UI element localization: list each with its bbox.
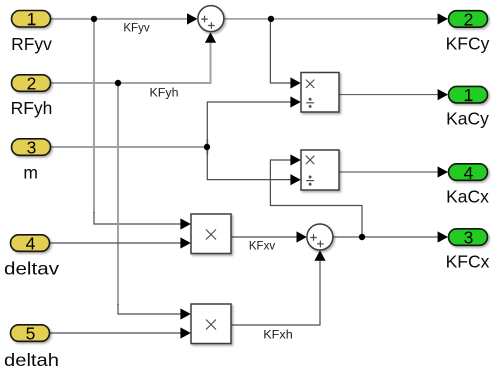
svg-text:4: 4 — [464, 163, 474, 183]
svg-text:KFCx: KFCx — [446, 252, 490, 272]
input port 5 — [11, 325, 50, 342]
product block P1 — [191, 214, 231, 254]
input port 4 — [11, 235, 50, 252]
wire branch sum1 output down to divide D1 — [270, 19, 298, 83]
arrowhead into out port KFCy — [438, 13, 448, 24]
junction on sum1 output — [268, 16, 274, 22]
wire product P1 output to sum2 — [231, 236, 298, 238]
arrowhead into sum2 bottom — [314, 250, 325, 261]
svg-text:KFxv: KFxv — [249, 241, 275, 253]
arrowhead into out port KaCy — [438, 89, 448, 100]
input port 1 — [12, 11, 51, 28]
arrowhead into divide D2 div input — [290, 174, 300, 185]
output port 4 KaCx — [449, 164, 488, 181]
output port 3 KFCx — [449, 229, 488, 246]
svg-text:5: 5 — [26, 324, 36, 344]
svg-text:RFyh: RFyh — [11, 98, 53, 118]
wire port2 RFyh to sum1 bottom — [51, 37, 211, 83]
arrowhead into divide D1 x input — [290, 77, 300, 88]
output port 1 KaCy — [449, 86, 488, 103]
svg-text:deltah: deltah — [4, 350, 59, 370]
svg-text:4: 4 — [26, 234, 36, 254]
sum block S2 — [307, 224, 333, 250]
junction on RFyh wire — [115, 80, 121, 86]
arrowhead into product P2 input1 — [180, 308, 190, 319]
svg-text:1: 1 — [464, 85, 474, 105]
sum block S1 — [198, 6, 224, 32]
junction on RFyv wire — [91, 16, 97, 22]
arrowhead into product P1 input1 — [180, 218, 190, 229]
wire m junction down to divide D2 — [207, 147, 298, 180]
svg-text:KFyv: KFyv — [123, 23, 149, 35]
svg-text:1: 1 — [27, 9, 37, 29]
svg-text:3: 3 — [27, 137, 37, 157]
svg-text:m: m — [23, 163, 38, 183]
svg-text:KaCx: KaCx — [446, 187, 489, 207]
wire port3 m to junction — [51, 146, 207, 148]
arrowhead into sum2 left — [297, 231, 307, 242]
wire port1 RFyv to sum1 — [51, 18, 189, 20]
svg-text:RFyv: RFyv — [11, 34, 52, 54]
input port 2 — [12, 75, 51, 92]
arrowhead into out port KFCx — [438, 231, 448, 242]
wire m junction up to divide D1 — [207, 102, 298, 147]
arrowhead into sum1 bottom — [205, 32, 216, 43]
arrowhead into divide D2 x input — [290, 154, 300, 165]
input port 3 — [12, 139, 51, 156]
wire branch RFyh down to product P2 — [117, 83, 119, 305]
output port 2 KFCy — [449, 11, 488, 28]
junction on m wire — [204, 144, 210, 150]
divide block D2 — [301, 150, 339, 190]
svg-text:KFyh: KFyh — [150, 88, 179, 100]
wire port5 deltah to product P2 — [50, 332, 187, 334]
svg-text:KaCy: KaCy — [446, 109, 489, 129]
svg-text:2: 2 — [464, 9, 474, 29]
svg-text:KFxh: KFxh — [263, 330, 293, 342]
svg-text:deltav: deltav — [4, 259, 59, 279]
svg-text:3: 3 — [464, 227, 474, 247]
junction on sum2 output — [359, 234, 365, 240]
wire port4 deltav to product P1 — [50, 242, 187, 244]
wire divide D2 output to KaCx — [339, 171, 441, 173]
wire sum2 output to KFCx — [333, 236, 441, 238]
wire product P2 output KFxh up to sum2 bottom — [231, 253, 320, 325]
arrowhead into product P2 input2 — [180, 327, 190, 338]
arrowhead into divide D1 div input — [290, 96, 300, 107]
svg-text:KFCy: KFCy — [446, 34, 490, 54]
wire branch RFyv down to product P1 — [93, 19, 95, 213]
wire sum1 output to KFCy — [224, 18, 271, 20]
arrowhead into product P1 input2 — [180, 237, 190, 248]
product block P2 — [191, 304, 231, 344]
wire divide D1 output to KaCy — [339, 94, 441, 96]
wire stub at m junction — [206, 139, 208, 155]
arrowhead into sum1 left — [187, 13, 198, 24]
arrowhead into out port KaCx — [438, 166, 448, 177]
divide block D1 — [301, 73, 339, 113]
svg-text:2: 2 — [27, 73, 37, 93]
wire branch sum2 output feedback to divide D2 — [270, 160, 362, 237]
